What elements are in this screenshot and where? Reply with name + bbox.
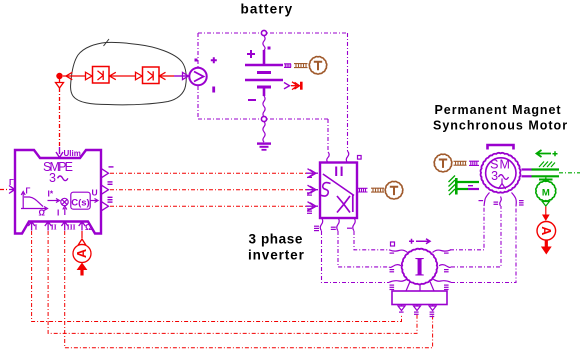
svg-text:I: I [35, 223, 38, 232]
svg-text:Ω: Ω [85, 222, 92, 232]
svg-text:A: A [539, 226, 553, 235]
svg-text:A: A [75, 249, 89, 258]
svg-text:inverter: inverter [248, 248, 305, 263]
svg-text:Synchronous Motor: Synchronous Motor [433, 119, 568, 133]
svg-text:3: 3 [49, 171, 56, 185]
svg-text:3: 3 [491, 169, 498, 183]
svg-text:I*: I* [48, 189, 54, 199]
svg-text:battery: battery [241, 2, 294, 17]
svg-text:II: II [51, 223, 57, 232]
svg-text:C(s): C(s) [71, 198, 89, 209]
svg-text:U: U [92, 188, 98, 198]
svg-text:Ω: Ω [39, 209, 46, 218]
svg-text:3 phase: 3 phase [249, 232, 303, 247]
svg-text:M: M [542, 187, 550, 198]
svg-text:Γ: Γ [9, 178, 14, 187]
svg-text:I: I [57, 208, 59, 218]
svg-text:Ulim: Ulim [64, 149, 81, 158]
svg-text:Γ: Γ [26, 187, 31, 196]
svg-text:III: III [67, 223, 76, 232]
svg-text:SMPE: SMPE [43, 160, 73, 174]
svg-text:Permanent Magnet: Permanent Magnet [435, 103, 562, 117]
svg-text:I: I [414, 253, 424, 282]
